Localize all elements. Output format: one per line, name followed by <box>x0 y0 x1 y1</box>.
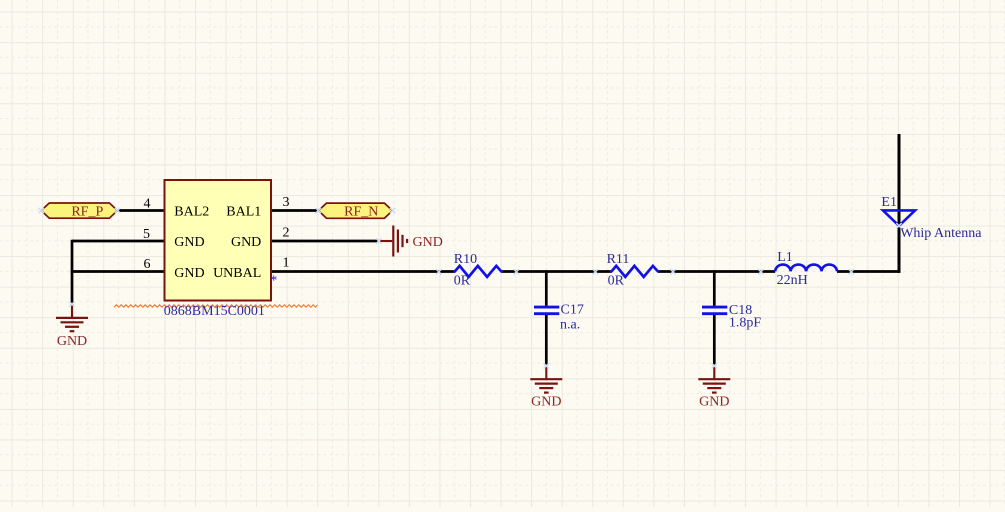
svg-text:GND: GND <box>57 334 87 349</box>
wire pin6 balun to left vertical <box>71 270 165 273</box>
svg-text:GND: GND <box>699 394 729 409</box>
wire pin4 RF_P to balun <box>118 209 165 212</box>
svg-text:GND: GND <box>174 235 204 250</box>
ground GND (below C18) <box>713 366 715 379</box>
resistor R11 <box>611 266 658 277</box>
wire C17 upper lead <box>545 270 548 306</box>
wire R11 to L1 <box>658 270 775 273</box>
wire C18 lower lead <box>713 313 716 366</box>
balun U1 0868BM15C0001 body <box>165 180 272 301</box>
svg-text:GND: GND <box>231 235 261 250</box>
svg-text:RF_P: RF_P <box>71 204 103 219</box>
ground GND (below C17) <box>545 366 547 379</box>
svg-text:0R: 0R <box>454 273 471 288</box>
svg-text:0R: 0R <box>608 273 625 288</box>
wire left vertical to GND <box>71 240 74 305</box>
capacitor C17 <box>534 307 559 314</box>
svg-text:n.a.: n.a. <box>560 317 580 332</box>
wire pin5 balun to left vertical <box>72 240 165 243</box>
svg-text:Whip Antenna: Whip Antenna <box>900 226 982 241</box>
svg-text:L1: L1 <box>777 250 793 265</box>
wire L1 to antenna <box>837 270 900 273</box>
port RF_N <box>318 203 392 218</box>
ground GND (left, below balun) <box>71 305 73 318</box>
svg-text:C17: C17 <box>561 303 584 318</box>
svg-text:GND: GND <box>413 235 443 250</box>
wire R10 to R11 <box>501 270 611 273</box>
svg-text:3: 3 <box>283 195 290 210</box>
ground GND (pin2, sideways) <box>379 240 393 242</box>
svg-text:RF_N: RF_N <box>344 204 378 219</box>
capacitor C18 <box>702 307 727 314</box>
inductor L1 <box>775 265 837 272</box>
svg-text:E1: E1 <box>881 195 897 210</box>
svg-text:1.8pF: 1.8pF <box>729 315 762 330</box>
svg-text:R11: R11 <box>607 252 630 267</box>
svg-text:0868BM15C0001: 0868BM15C0001 <box>164 304 265 319</box>
wire UNBAL to R10 <box>271 270 455 273</box>
svg-text:6: 6 <box>144 257 151 272</box>
wire pin3 balun to RF_N <box>271 209 319 212</box>
wire antenna vertical <box>898 134 901 273</box>
svg-text:BAL1: BAL1 <box>226 204 261 219</box>
hotspot crosses <box>39 208 44 213</box>
port RF_P <box>41 203 117 218</box>
svg-text:2: 2 <box>283 226 290 241</box>
wire pin2 balun to GND <box>271 240 379 243</box>
svg-text:1: 1 <box>283 256 290 271</box>
svg-text:R10: R10 <box>454 252 477 267</box>
orange warning squiggle <box>114 305 318 307</box>
resistor R10 <box>455 266 502 277</box>
svg-text:BAL2: BAL2 <box>174 204 209 219</box>
svg-text:GND: GND <box>531 394 561 409</box>
svg-text:22nH: 22nH <box>777 273 808 288</box>
wire C18 upper lead <box>713 270 716 306</box>
wire C17 lower lead <box>545 313 548 366</box>
svg-text:UNBAL: UNBAL <box>213 266 261 281</box>
svg-text:GND: GND <box>174 266 204 281</box>
svg-text:*: * <box>270 273 277 288</box>
svg-text:5: 5 <box>143 227 150 242</box>
svg-text:4: 4 <box>144 197 151 212</box>
antenna E1 triangle <box>883 210 915 225</box>
